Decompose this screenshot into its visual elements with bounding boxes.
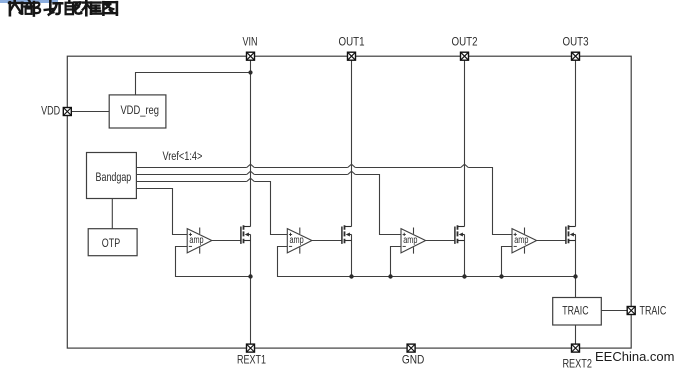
hop Vref3 over x=250.5 [247, 178, 255, 181]
node amp3 fb [388, 274, 392, 278]
transistor Q4 (NMOS ch4) [566, 225, 576, 244]
block Bandgap [87, 153, 137, 199]
wire amp2 feedback + bus segment B [278, 247, 576, 277]
pin VIN [243, 35, 258, 61]
svg-text:OUT2: OUT2 [452, 35, 478, 49]
wire VDD_reg top to VIN net [136, 73, 251, 95]
op-amp U3 (amp) [401, 228, 426, 254]
char 内 [9, 0, 23, 15]
wire amp3 output to Q3 gate [426, 240, 455, 242]
char 能 [66, 0, 82, 14]
wire OUT3 vertical (drain rail ch4) [575, 60, 577, 226]
wire Vref line1 to amp4 [136, 168, 512, 235]
wire ch4 source rail to TRAIC [575, 235, 577, 298]
svg-text:GND: GND [402, 353, 425, 367]
node ch2 source [349, 274, 353, 278]
svg-text:OTP: OTP [102, 236, 120, 250]
svg-text:VDD: VDD [41, 104, 60, 118]
svg-text:TRAIC: TRAIC [562, 303, 588, 317]
char 图 [103, 2, 117, 15]
wire Vref line2 to amp3 [136, 175, 401, 235]
block VDD_reg [109, 95, 166, 128]
wire ch2 source rail [351, 235, 353, 277]
hop Vref2 over x=351.5 [348, 171, 356, 174]
wire ch1 source rail to REXT1 [250, 235, 252, 345]
op-amp U4 (amp) [512, 228, 537, 254]
hop Vref2 over x=250.5 [247, 171, 255, 174]
char 切 [45, 0, 63, 14]
hop Vref1 over x=250.5 [247, 164, 255, 167]
transistor Q1 (NMOS ch1) [241, 225, 251, 244]
hop Vref1 over x=464.5 [461, 164, 469, 167]
block OTP [88, 229, 137, 256]
svg-text:Vref<1:4>: Vref<1:4> [162, 149, 202, 163]
op-amp U2 (amp) [287, 228, 312, 254]
wire amp1 feedback + bus segment A [176, 247, 251, 277]
svg-text:amp: amp [189, 235, 204, 246]
pin GND [402, 344, 425, 366]
char 框 [83, 0, 101, 15]
svg-text:OUT1: OUT1 [339, 35, 365, 49]
wire TRAIC box to REXT2 [575, 325, 577, 344]
pin OUT2 [452, 35, 478, 61]
wire OUT1 vertical (drain rail ch2) [351, 60, 353, 226]
svg-text:amp: amp [403, 235, 418, 246]
hop Vref1 over x=351.5 [348, 164, 356, 167]
op-amp U1 (amp) [187, 228, 212, 254]
wire amp4 feedback [502, 247, 513, 277]
svg-text:VIN: VIN [243, 35, 258, 49]
pin VDD [41, 104, 71, 118]
node ch1 source / REXT1 [248, 274, 252, 278]
wire OUT2 vertical (drain rail ch3) [464, 60, 466, 226]
pin TRAIC [627, 303, 666, 317]
pin REXT2 [562, 344, 592, 368]
svg-text:OUT3: OUT3 [563, 35, 589, 49]
wire amp3 feedback [391, 247, 402, 277]
svg-text:amp: amp [514, 235, 529, 246]
svg-text:amp: amp [290, 235, 305, 246]
node VIN/VDD_reg junction [248, 70, 252, 74]
wire ch3 source rail [464, 235, 466, 277]
pin OUT3 [563, 35, 589, 61]
wire amp1 output to Q1 gate [212, 240, 241, 242]
svg-text:EEChina.com: EEChina.com [595, 349, 674, 364]
wire VDD pin to VDD_reg [67, 111, 109, 113]
transistor Q2 (NMOS ch2) [342, 225, 352, 244]
wire Vref line4 to amp1 [136, 189, 187, 235]
wire Vref line3 to amp2 [136, 182, 287, 235]
chip outline box [67, 56, 631, 348]
node amp4 fb [499, 274, 503, 278]
wire amp4 output to Q4 gate [537, 240, 566, 242]
node ch4 source / REXT2 [573, 274, 577, 278]
transistor Q3 (NMOS ch3) [455, 225, 465, 244]
wire Bandgap to OTP [111, 199, 113, 229]
pin REXT1 [237, 344, 266, 366]
svg-text:VDD_reg: VDD_reg [120, 103, 159, 117]
block TRAIC [553, 298, 602, 326]
wire amp2 output to Q2 gate [312, 240, 342, 242]
wire TRAIC box to TRAIC pin [601, 310, 627, 312]
svg-text:TRAIC: TRAIC [640, 303, 667, 317]
svg-text:REXT2: REXT2 [562, 357, 592, 368]
svg-text:REXT1: REXT1 [237, 352, 266, 366]
node ch3 source [462, 274, 466, 278]
pin OUT1 [339, 35, 365, 61]
title 内部功能框图 (drawn strokes) [9, 0, 117, 16]
char 部 [24, 0, 40, 15]
svg-text:Bandgap: Bandgap [96, 170, 132, 184]
wire VIN vertical (drain rail ch1) [250, 60, 252, 226]
blue highlight bar top-left [0, 0, 58, 3]
